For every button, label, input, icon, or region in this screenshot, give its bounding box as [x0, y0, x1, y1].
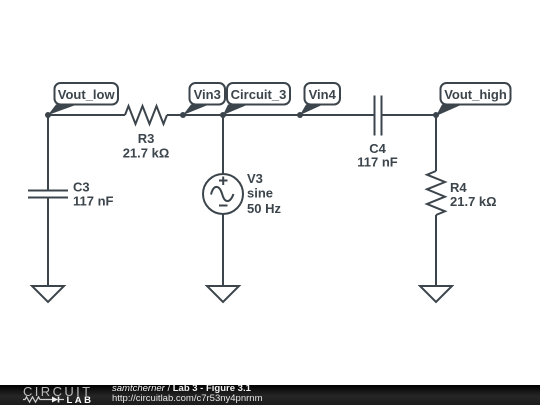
label flag Vout_high: [436, 83, 511, 116]
capacitor C4: [375, 96, 382, 136]
credit line 2: [112, 394, 262, 404]
label flag Vin3: [183, 83, 225, 115]
svg-text:117 nF: 117 nF: [73, 194, 114, 209]
CircuitLab logo text: [23, 385, 93, 398]
node Vin3: [180, 112, 186, 118]
credit line 1: [112, 384, 251, 394]
svg-text:21.7 kΩ: 21.7 kΩ: [450, 194, 497, 209]
resistor R4: [427, 171, 445, 215]
svg-text:R3: R3: [138, 131, 155, 146]
capacitor C3: [28, 191, 68, 198]
svg-text:50 Hz: 50 Hz: [247, 201, 281, 216]
svg-text:R4: R4: [450, 180, 467, 195]
label flag Vin4: [300, 83, 340, 115]
label flag Vout_low: [48, 83, 118, 115]
svg-text:Vout_low: Vout_low: [58, 87, 116, 102]
voltage source V3: [203, 174, 243, 214]
resistor R3: [125, 106, 167, 124]
svg-text:Vout_high: Vout_high: [444, 87, 507, 102]
svg-text:Vin3: Vin3: [194, 87, 221, 102]
svg-text:21.7 kΩ: 21.7 kΩ: [123, 146, 170, 161]
wire Vout_low down: [47, 115, 49, 190]
svg-text:Circuit_3: Circuit_3: [231, 87, 287, 102]
svg-text:C3: C3: [73, 180, 90, 195]
wire Circuit_3 down to V3: [222, 115, 224, 174]
wire R4 to ground: [435, 215, 437, 286]
wire middle segment: [167, 114, 374, 116]
wire V3 to ground: [222, 214, 224, 286]
svg-text:117 nF: 117 nF: [357, 155, 398, 170]
node Vout_low: [45, 112, 51, 118]
node Vin4: [297, 112, 303, 118]
CircuitLab logo squiggle (resistor + diode): [23, 396, 65, 404]
label flag Circuit_3: [223, 83, 290, 115]
ground (left): [32, 286, 64, 302]
ground (right): [420, 286, 452, 302]
node Vout_high: [433, 112, 439, 118]
wire C4 to Vout_high: [382, 114, 437, 116]
wire left segment: [48, 114, 125, 116]
LAB logo text: [67, 396, 94, 405]
ground (middle): [207, 286, 239, 302]
svg-text:sine: sine: [247, 186, 273, 201]
node Circuit_3: [220, 112, 226, 118]
wire C3 to ground: [47, 198, 49, 287]
svg-text:Vin4: Vin4: [309, 87, 337, 102]
footer bar: [0, 385, 540, 405]
svg-text:V3: V3: [247, 171, 263, 186]
wire Vout_high down: [435, 115, 437, 171]
